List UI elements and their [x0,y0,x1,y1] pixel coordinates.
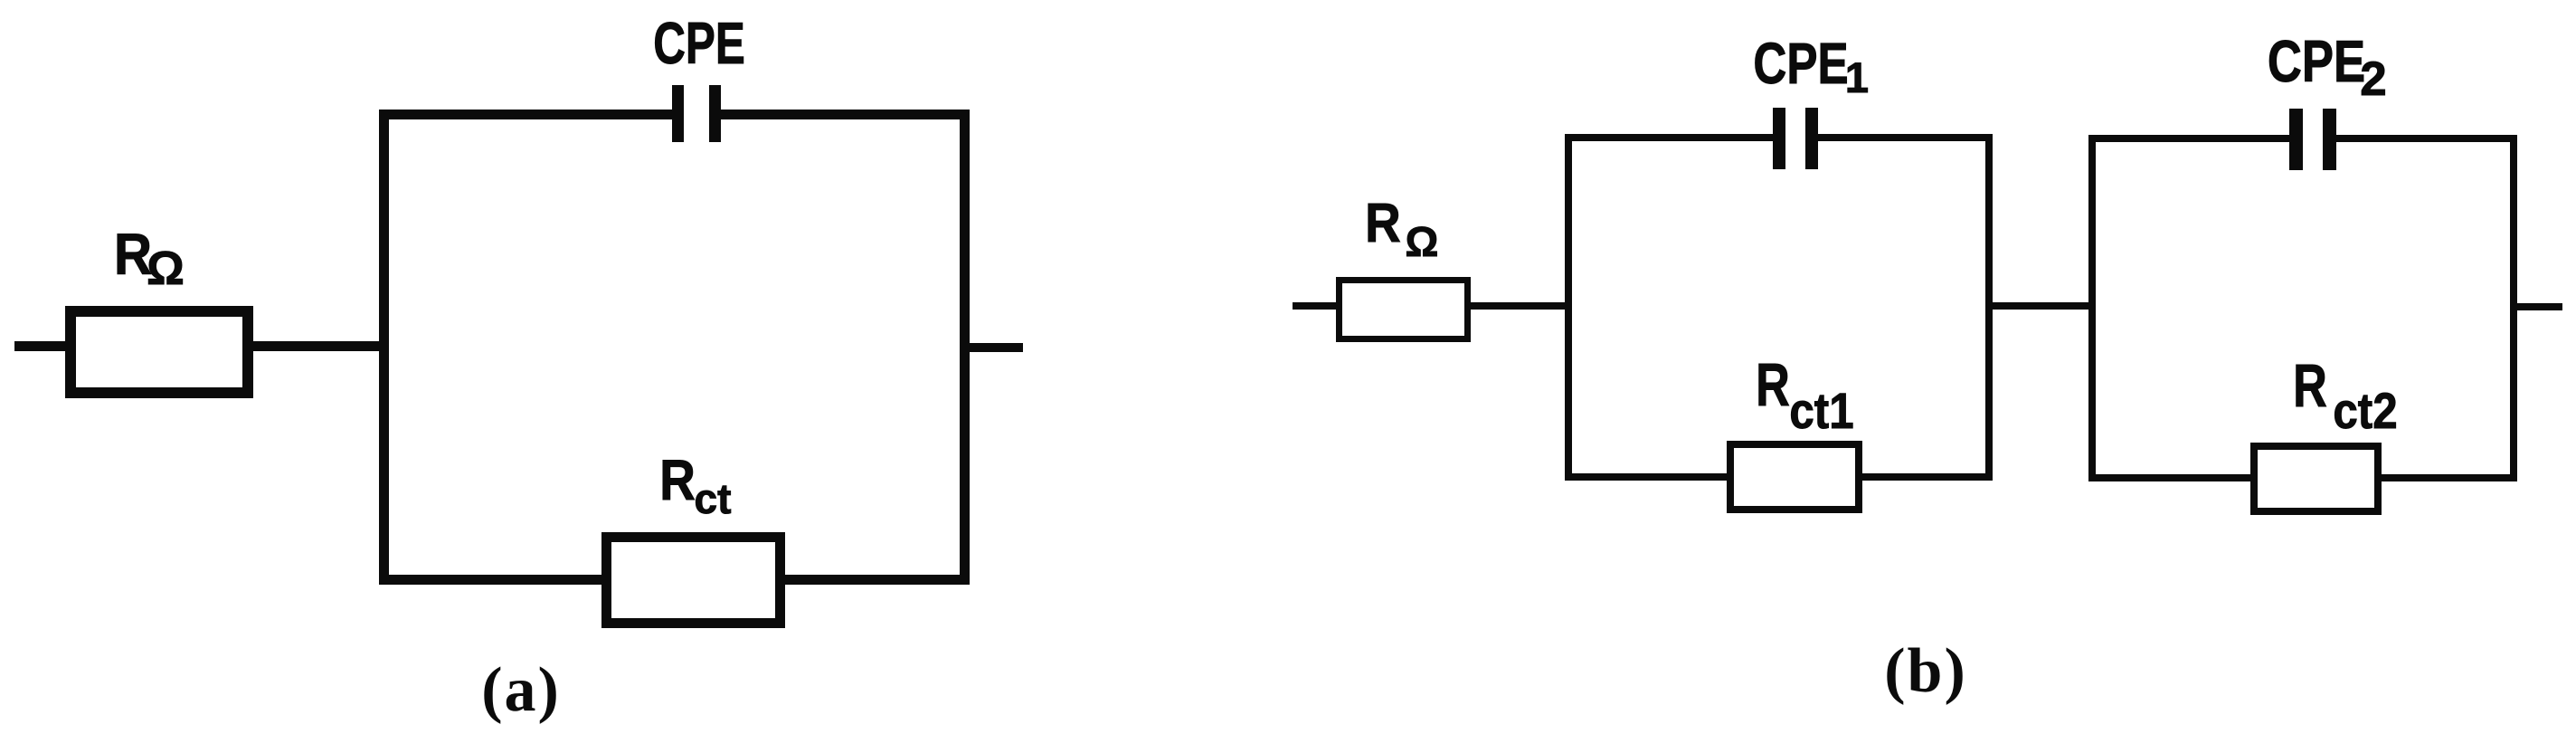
resistor R_ct1 (b) [1727,441,1862,513]
wire: right vertical of block 2 (b) [2510,135,2517,481]
capacitor CPE1 left plate [1773,108,1785,169]
label CPE2 [2268,32,2365,91]
resistor R_ct (a) [601,532,785,628]
label (b) [1884,640,1967,703]
label R_ohm (b) subscript omega [1406,221,1439,262]
wire: left vertical of parallel block (a) [379,110,389,585]
label R_ohm (a) subscript omega [147,245,185,292]
wire: R_ohm to first parallel block (b) [1471,302,1565,310]
wire: top left segment to CPE2 (b) [2088,135,2289,142]
wire: left vertical of block 1 (b) [1565,134,1572,481]
label (a) [481,659,561,722]
wire: input stub circuit (a) [14,341,65,351]
wire: middle link between blocks (b) [1993,302,2088,310]
wire: bottom right segment from R_ct (a) [785,575,970,585]
label CPE1 [1753,34,1848,92]
capacitor CPE1 right plate [1805,108,1818,169]
wire: bottom left segment to R_ct1 (b) [1565,473,1727,481]
wire: output stub circuit (b) [2517,303,2562,310]
label R_ct1 [1756,355,1790,415]
wire: right vertical of block 1 (b) [1985,134,1993,481]
capacitor CPE2 left plate [2289,109,2303,170]
capacitor CPE (a) left plate [672,85,684,142]
label R_ct2 subscript ct2 [2333,386,2397,436]
capacitor CPE2 right plate [2323,109,2336,170]
wire: bottom left segment to R_ct2 (b) [2088,474,2250,481]
wire: top left segment to CPE1 (b) [1565,134,1773,141]
label R_ct (a) subscript ct [695,478,732,520]
capacitor CPE (a) right plate [709,85,721,142]
label R_ct2 [2293,356,2327,416]
wire: left vertical of block 2 (b) [2088,135,2096,481]
wire: right vertical of parallel block (a) [960,110,970,585]
resistor R_ohm (b) [1336,277,1471,342]
label R_ohm (a) [114,225,152,283]
resistor R_ohm (a) [65,306,253,398]
wire: bottom right segment from R_ct2 (b) [2382,474,2517,481]
wire: output stub circuit (a) [970,343,1023,352]
label R_ohm (b) [1365,195,1401,251]
wire: R_ohm to parallel block (a) [253,341,384,351]
label CPE1 subscript 1 [1845,56,1869,99]
label R_ct (a) [659,453,696,510]
wire: top right segment from CPE (a) [721,110,970,119]
wire: input stub circuit (b) [1293,302,1336,310]
label CPE (a) [653,14,745,72]
wire: bottom right segment from R_ct1 (b) [1862,473,1993,481]
wire: bottom left segment to R_ct (a) [379,575,601,585]
resistor R_ct2 (b) [2250,443,2382,515]
wire: top right segment from CPE2 (b) [2336,135,2517,142]
wire: top right segment from CPE1 (b) [1818,134,1993,141]
label R_ct1 subscript ct1 [1789,386,1853,436]
wire: top left segment to CPE (a) [379,110,672,119]
label CPE2 subscript 2 [2360,55,2386,103]
